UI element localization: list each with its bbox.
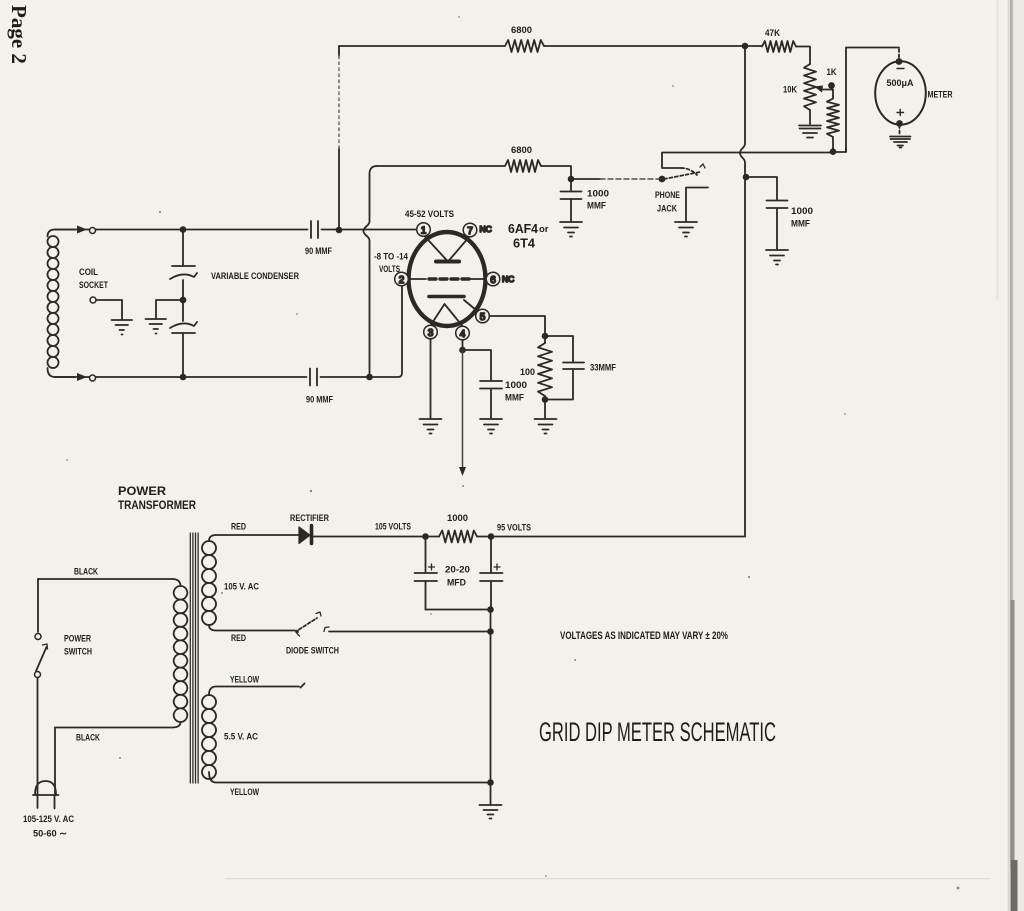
- svg-text:10K: 10K: [783, 85, 797, 96]
- node: varcond top junction: [181, 227, 186, 232]
- wire: pin 4 heater lead with arrow: [462, 350, 464, 468]
- capacitor 1000 MMF (plate): [561, 179, 582, 221]
- diode switch: [295, 630, 299, 634]
- capacitor 1000 MMF (B+): [746, 177, 788, 249]
- svg-text:MFD: MFD: [447, 578, 466, 589]
- pin 4: [456, 326, 470, 340]
- wire: oscillator bottom line (coil to pin 2 riser): [55, 287, 402, 377]
- wire: meter bus riser and top lead: [846, 48, 899, 152]
- svg-text:47K: 47K: [765, 28, 780, 39]
- node: filter input: [423, 534, 428, 539]
- coil socket stator contact: [90, 297, 96, 303]
- svg-text:YELLOW: YELLOW: [230, 787, 259, 798]
- AC plug: [35, 781, 56, 795]
- ground (cathode bypass): [480, 419, 502, 434]
- svg-text:RECTIFIER: RECTIFIER: [290, 513, 329, 524]
- wire: 95V line to B+ riser: [491, 536, 745, 538]
- transformer core: [190, 533, 198, 783]
- svg-text:GRID DIP METER SCHEMATIC: GRID DIP METER SCHEMATIC: [539, 717, 776, 747]
- svg-text:1000: 1000: [587, 189, 609, 200]
- wire: grid feed from top bus down to tuned-circuit top: [338, 46, 340, 230]
- svg-text:100: 100: [520, 367, 535, 378]
- svg-text:DIODE SWITCH: DIODE SWITCH: [286, 646, 339, 657]
- svg-text:33MMF: 33MMF: [590, 363, 616, 374]
- node: diode switch bus junction: [488, 629, 493, 634]
- svg-text:105 VOLTS: 105 VOLTS: [375, 522, 411, 533]
- node: plate RC junction: [569, 177, 574, 182]
- svg-text:COIL: COIL: [79, 267, 98, 278]
- potentiometer 10K: [804, 64, 816, 110]
- svg-text:Page 2: Page 2: [7, 5, 31, 64]
- tube grid: [409, 278, 426, 280]
- ground (meter): [890, 137, 911, 148]
- svg-text:POWER: POWER: [64, 634, 91, 645]
- svg-text:VARIABLE CONDENSER: VARIABLE CONDENSER: [211, 271, 299, 282]
- svg-text:105 V. AC: 105 V. AC: [224, 582, 259, 593]
- node: varcond bottom junction: [181, 375, 186, 380]
- node: 5.5V return junction: [488, 780, 493, 785]
- svg-text:90 MMF: 90 MMF: [305, 246, 332, 257]
- svg-text:6T4: 6T4: [513, 236, 536, 251]
- svg-text:5: 5: [480, 312, 486, 323]
- svg-text:1000: 1000: [791, 206, 813, 217]
- power switch: [37, 579, 39, 632]
- pin 2: [395, 272, 409, 286]
- wire: RC network to ground: [544, 400, 546, 419]
- svg-text:MMF: MMF: [587, 201, 606, 212]
- rectifier diode: [299, 527, 310, 544]
- svg-text:1000: 1000: [447, 513, 468, 524]
- node: B+ bypass tap: [744, 175, 749, 180]
- wire: pin 4 branch to bypass cap: [463, 340, 492, 380]
- coil socket contact (top): [77, 226, 87, 234]
- wire: pin 5 to RC network: [490, 316, 546, 336]
- svg-text:SWITCH: SWITCH: [64, 647, 92, 658]
- pin 1: [417, 223, 431, 237]
- node: cap common junction: [488, 607, 493, 612]
- ground (pin 3 cathode): [420, 419, 442, 434]
- svg-text:1K: 1K: [827, 67, 837, 78]
- svg-text:RED: RED: [231, 633, 246, 644]
- transformer secondary 5.5V: [202, 695, 216, 779]
- node: plate-line tap on bottom wire: [367, 375, 372, 380]
- svg-text:VOLTAGES AS INDICATED MAY VARY: VOLTAGES AS INDICATED MAY VARY ± 20%: [560, 630, 728, 642]
- svg-text:NC: NC: [480, 224, 492, 234]
- capacitor 90 MMF (top): [311, 221, 318, 238]
- svg-text:TRANSFORMER: TRANSFORMER: [118, 500, 197, 512]
- ground (pot): [799, 126, 821, 138]
- pin 7: [463, 223, 477, 237]
- svg-text:3: 3: [428, 328, 434, 339]
- pin 5: [476, 309, 490, 323]
- node: RC bottom junction: [543, 397, 548, 402]
- svg-text:105-125 V. AC: 105-125 V. AC: [23, 814, 74, 825]
- node: pot wiper / 1K: [829, 83, 834, 88]
- svg-text:2: 2: [399, 275, 405, 286]
- wire: plate junction to phone jack tip: [571, 178, 600, 180]
- meter M1 500uA: [898, 49, 900, 60]
- node: pin 4 junction: [460, 348, 465, 353]
- ground (coil socket): [112, 320, 133, 335]
- ground (RC network): [535, 419, 557, 434]
- variable condenser C1: [182, 230, 184, 266]
- wire: common riser to ground bus: [490, 610, 492, 783]
- svg-text:or: or: [539, 224, 549, 235]
- power transformer T1 primary: [38, 579, 181, 586]
- svg-text:6: 6: [490, 275, 496, 286]
- page right edge shading: [1013, 0, 1024, 911]
- tube V1 6AF4/6T4 envelope: [409, 232, 486, 326]
- capacitor 1000 MMF (cathode): [480, 381, 502, 418]
- ground (plate bypass): [560, 222, 582, 237]
- svg-text:45-52 VOLTS: 45-52 VOLTS: [405, 209, 454, 220]
- wire: oscillator top line (coil to pin 1): [55, 229, 417, 231]
- node: top bus / 47K junction: [743, 44, 748, 49]
- node: RC top junction: [543, 334, 548, 339]
- svg-text:20-20: 20-20: [445, 565, 470, 576]
- resistor 6800 (plate): [505, 160, 541, 172]
- svg-text:5.5 V. AC: 5.5 V. AC: [224, 732, 258, 743]
- ground (phone jack): [675, 222, 697, 237]
- node: varcond rotor junction: [181, 298, 186, 303]
- pin 3: [424, 325, 438, 339]
- svg-text:6800: 6800: [511, 145, 532, 156]
- svg-text:JACK: JACK: [657, 204, 677, 215]
- svg-text:SOCKET: SOCKET: [79, 280, 108, 291]
- node: junction top bus / grid line: [337, 228, 342, 233]
- phone jack: [662, 153, 681, 168]
- wire: rotor to ground: [156, 300, 183, 318]
- wire: pot to ground: [809, 110, 811, 124]
- pin 6: [486, 272, 500, 286]
- capacitor 33 MMF: [545, 336, 584, 400]
- svg-text:6800: 6800: [511, 25, 532, 36]
- svg-text:POWER: POWER: [118, 486, 167, 498]
- tube plate: [436, 260, 459, 264]
- svg-text:7: 7: [467, 226, 473, 237]
- svg-text:NC: NC: [502, 274, 514, 284]
- wire: filter cap common: [426, 609, 492, 611]
- resistor 100: [538, 343, 552, 396]
- wire: ground stem: [490, 783, 492, 805]
- svg-text:MMF: MMF: [505, 393, 524, 404]
- wire: top bus from oscillator to 47K: [339, 45, 745, 47]
- resistor 6800 (top): [505, 40, 544, 52]
- svg-text:VOLTS: VOLTS: [379, 264, 400, 275]
- resistor 1K: [832, 90, 834, 99]
- svg-text:MMF: MMF: [791, 219, 810, 230]
- coil socket contact (bottom): [77, 373, 87, 381]
- svg-text:500μA: 500μA: [887, 78, 914, 89]
- ground (varcond rotor): [146, 319, 167, 334]
- svg-text:PHONE: PHONE: [655, 190, 680, 201]
- wire: 47K to pot: [796, 47, 810, 65]
- svg-text:90 MMF: 90 MMF: [306, 395, 333, 406]
- wire: pin 3 to ground: [430, 339, 432, 418]
- ground (main chassis): [480, 805, 502, 819]
- node: 1K to meter bus: [831, 149, 836, 154]
- wire: line cord neutral: [54, 728, 56, 796]
- wire: second bus (plate): [377, 166, 571, 178]
- svg-text:50-60 ∼: 50-60 ∼: [33, 829, 67, 840]
- tube cathode: [429, 295, 464, 299]
- svg-text:1: 1: [421, 225, 427, 236]
- svg-text:95 VOLTS: 95 VOLTS: [497, 523, 531, 534]
- svg-text:BLACK: BLACK: [76, 733, 100, 744]
- node: 95V junction: [489, 534, 494, 539]
- wire: jack top to meter bus: [662, 148, 846, 153]
- svg-text:-8 TO -14: -8 TO -14: [374, 252, 409, 263]
- capacitor 20 MFD (input): [415, 537, 438, 610]
- wire: plate line riser (2nd bus down to bottom wire, with jog): [364, 166, 378, 377]
- capacitor 20 MFD (output): [480, 537, 503, 610]
- resistor 47K: [762, 41, 796, 52]
- svg-text:1000: 1000: [505, 380, 527, 391]
- transformer secondary 105V: [202, 541, 216, 625]
- coil L1 (plug-in coil): [48, 230, 76, 237]
- svg-text:BLACK: BLACK: [74, 567, 98, 578]
- capacitor 90 MMF (bottom): [310, 369, 317, 386]
- wire: B+ riser x=745 (with crossover jog): [740, 46, 745, 537]
- node: phone jack tip: [660, 177, 665, 182]
- ground (B+ bypass): [766, 250, 788, 265]
- svg-text:RED: RED: [231, 522, 246, 533]
- svg-text:METER: METER: [928, 90, 953, 101]
- svg-text:YELLOW: YELLOW: [230, 675, 259, 686]
- svg-text:4: 4: [460, 329, 466, 340]
- resistor 1000 (filter): [426, 536, 439, 538]
- svg-text:6AF4: 6AF4: [508, 221, 539, 236]
